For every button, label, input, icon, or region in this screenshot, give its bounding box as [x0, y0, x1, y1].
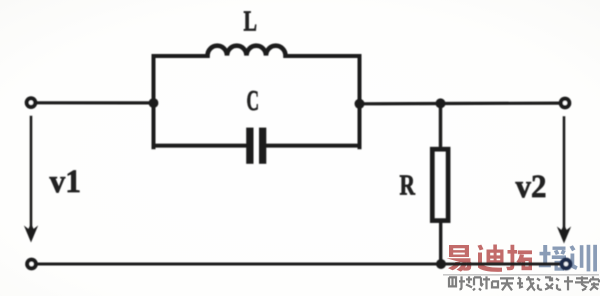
wire: tank left/top/right sides with inductor gap: [154, 56, 360, 147]
char 训 (blue): [570, 245, 598, 272]
天: [500, 278, 514, 290]
和: [481, 276, 498, 289]
watermark logo 易迪拓培训 + 射频和天线设计专家: [443, 245, 599, 291]
svg-text:R: R: [400, 171, 416, 202]
设: [537, 277, 553, 289]
wire: bottom return rail: [36, 263, 561, 266]
schematic ink: [24, 46, 571, 269]
char 拓 (red): [506, 245, 532, 270]
wire: input lead v1 top: [35, 101, 154, 104]
射: [449, 276, 465, 289]
wire: output lead: [360, 101, 561, 105]
v1 arrow: [24, 117, 38, 243]
家: [590, 276, 599, 290]
small gray text 射频和天线设计专家: [449, 276, 599, 290]
char 易 (red): [447, 245, 472, 272]
频: [466, 276, 481, 290]
svg-text:L: L: [244, 5, 258, 37]
node: input junction: [149, 98, 159, 108]
char 迪 (red): [478, 245, 504, 272]
wire: resistor branch top: [439, 104, 442, 150]
node: resistor bottom junction: [436, 259, 446, 269]
terminal: output bottom (open circle): [562, 260, 571, 269]
terminal: input bottom (open circle): [27, 260, 36, 269]
专: [575, 276, 589, 290]
char 培 (blue): [539, 245, 566, 271]
svg-text:v2: v2: [516, 169, 547, 205]
v2 arrow: [557, 118, 571, 244]
inductor L (4 humps): [208, 46, 286, 56]
separator line: [443, 274, 599, 276]
svg-text:C: C: [247, 85, 260, 117]
terminal: output top (open circle): [561, 99, 570, 108]
wire: tank bottom rail with capacitor gap: [154, 144, 360, 148]
node: tank output junction: [355, 99, 365, 109]
线: [517, 276, 535, 290]
wire: resistor branch bottom: [439, 221, 442, 264]
capacitor C plates: [246, 128, 266, 164]
node: resistor top junction: [436, 98, 446, 108]
terminal: input top (open circle): [27, 98, 36, 107]
svg-text:v1: v1: [50, 164, 82, 200]
resistor R body: [432, 149, 448, 220]
计: [556, 276, 573, 290]
